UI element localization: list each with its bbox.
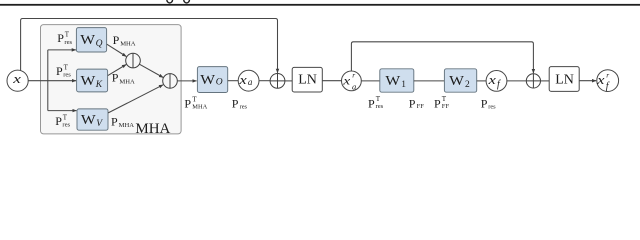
label P_res^T row K: [56, 63, 71, 78]
wire branch vertical: [47, 50, 49, 111]
svg-text:K: K: [95, 80, 103, 90]
wire x_a^r to W_1: [361, 80, 380, 82]
svg-text:P: P: [409, 96, 416, 110]
svg-text:W: W: [200, 72, 215, 87]
box W_1: [380, 69, 414, 92]
wire W_V to concat2: [108, 85, 163, 113]
concat node 2: [163, 74, 178, 89]
svg-text:P: P: [55, 114, 62, 128]
wire residual bypass 2 (x_a^r to add2): [351, 42, 533, 73]
wire branch to W_Q: [48, 49, 76, 51]
svg-text:Q: Q: [96, 39, 103, 49]
svg-text:MHA: MHA: [119, 122, 135, 129]
svg-text:MHA: MHA: [119, 78, 135, 85]
wire W_2 to x_f: [477, 80, 486, 82]
wire W_1 to W_2: [414, 80, 445, 82]
wire branch to W_V: [48, 110, 77, 112]
label P_res under x_f: [481, 96, 496, 110]
wire x_a to add1: [259, 80, 270, 82]
svg-text:res: res: [62, 122, 70, 129]
svg-text:res: res: [488, 104, 496, 111]
svg-text:O: O: [216, 77, 223, 87]
wire LN1 to x_a^r: [322, 80, 341, 82]
box W_K: [77, 69, 108, 92]
svg-text:W: W: [385, 74, 400, 89]
box W_O: [197, 67, 227, 93]
svg-text:res: res: [64, 39, 72, 46]
svg-text:r: r: [606, 71, 609, 80]
label P_MHA row V: [111, 114, 134, 129]
svg-text:a: a: [248, 77, 253, 87]
label P_FF^T: [434, 95, 449, 110]
svg-text:P: P: [434, 96, 441, 110]
label P_res^T row Q: [57, 30, 72, 45]
wire concat2 to W_O: [177, 80, 196, 82]
wire W_K to concat1: [108, 65, 126, 76]
node x: [7, 70, 28, 91]
svg-text:T: T: [63, 113, 68, 121]
svg-text:a: a: [352, 81, 356, 91]
wire x to W_K: [28, 80, 76, 82]
box LN 2: [549, 67, 579, 92]
wire residual bypass 1 (x to add1): [21, 19, 278, 73]
svg-text:W: W: [80, 33, 95, 48]
svg-text:P: P: [111, 114, 118, 128]
svg-text:x: x: [342, 75, 351, 88]
label P_res^T under x_a^r: [368, 95, 384, 110]
svg-text:T: T: [65, 30, 70, 38]
svg-text:1: 1: [401, 80, 406, 90]
svg-text:W: W: [449, 74, 464, 89]
svg-text:W: W: [81, 74, 96, 89]
svg-text:P: P: [232, 96, 239, 110]
MHA block container: [41, 25, 182, 134]
concat node 1: [126, 53, 141, 68]
svg-text:x: x: [238, 74, 247, 88]
svg-text:T: T: [64, 63, 69, 71]
top rule: [0, 4, 640, 6]
svg-text:T: T: [192, 95, 197, 103]
wire x_f to add2: [507, 80, 526, 82]
node x_a^r: [342, 71, 362, 92]
svg-text:x: x: [487, 74, 496, 88]
svg-text:P: P: [184, 96, 191, 110]
svg-text:r: r: [352, 71, 355, 80]
node x_a: [238, 70, 259, 91]
svg-text:FF: FF: [417, 103, 425, 110]
svg-text:P: P: [113, 33, 120, 47]
svg-text:LN: LN: [555, 73, 574, 88]
label P_FF: [409, 96, 424, 110]
wire LN2 to x_f^r (arrow): [579, 80, 596, 82]
label P_MHA^T: [184, 95, 207, 110]
wire W_O to x_a: [228, 80, 239, 82]
svg-text:res: res: [376, 103, 384, 110]
svg-text:MHA: MHA: [192, 104, 207, 111]
wire add2 to LN2: [541, 80, 550, 82]
svg-text:P: P: [57, 31, 64, 45]
box LN 1: [292, 67, 322, 92]
svg-text:P: P: [481, 96, 488, 110]
partial glyph descender 1: [167, 0, 173, 3]
box W_2: [444, 69, 476, 92]
box W_Q: [76, 28, 106, 52]
svg-text:W: W: [81, 113, 96, 128]
wire W_Q to concat1: [107, 44, 127, 56]
partial glyph descender 2: [184, 0, 190, 3]
svg-text:x: x: [12, 72, 21, 87]
node x_f: [486, 71, 507, 92]
label P_MHA row K: [112, 71, 135, 86]
svg-text:P: P: [56, 64, 63, 78]
svg-text:MHA: MHA: [135, 121, 170, 137]
svg-text:x: x: [596, 74, 605, 88]
wire concat1 to concat2: [139, 64, 163, 77]
svg-text:res: res: [63, 72, 71, 79]
node x_f^r: [596, 70, 619, 92]
wire add1 to LN1: [285, 80, 292, 82]
svg-text:2: 2: [465, 80, 470, 90]
svg-text:LN: LN: [298, 72, 317, 87]
label P_res under x_a: [232, 96, 248, 110]
add node 1: [270, 74, 285, 89]
label P_MHA row Q: [113, 33, 136, 48]
box W_V: [77, 109, 108, 130]
svg-text:res: res: [240, 104, 248, 111]
svg-text:MHA: MHA: [120, 41, 136, 48]
svg-text:FF: FF: [442, 103, 450, 110]
svg-text:P: P: [368, 96, 375, 110]
add node 2: [526, 74, 540, 88]
label P_res^T row V: [55, 113, 70, 128]
